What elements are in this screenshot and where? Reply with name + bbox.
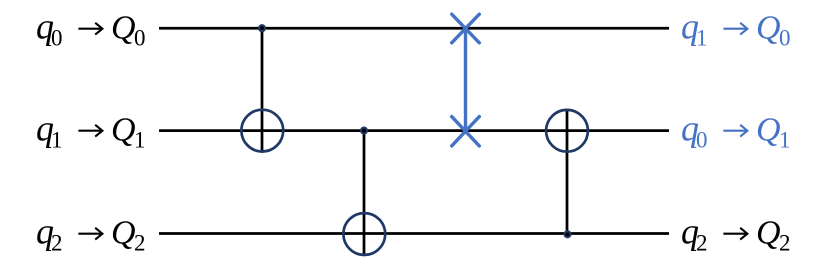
svg-text:Q: Q xyxy=(111,215,136,252)
svg-text:Q: Q xyxy=(111,10,136,47)
svg-text:1: 1 xyxy=(51,128,63,153)
svg-text:2: 2 xyxy=(134,231,146,256)
svg-text:Q: Q xyxy=(756,215,781,252)
svg-text:1: 1 xyxy=(696,26,708,51)
svg-text:0: 0 xyxy=(696,128,708,153)
svg-text:0: 0 xyxy=(134,26,146,51)
svg-text:2: 2 xyxy=(696,231,708,256)
svg-text:Q: Q xyxy=(756,112,781,149)
svg-text:Q: Q xyxy=(111,112,136,149)
svg-text:0: 0 xyxy=(779,26,791,51)
svg-text:2: 2 xyxy=(51,231,63,256)
svg-text:1: 1 xyxy=(779,128,791,153)
svg-text:Q: Q xyxy=(756,10,781,47)
svg-text:0: 0 xyxy=(51,26,63,51)
svg-text:2: 2 xyxy=(779,231,791,256)
svg-text:1: 1 xyxy=(134,128,146,153)
